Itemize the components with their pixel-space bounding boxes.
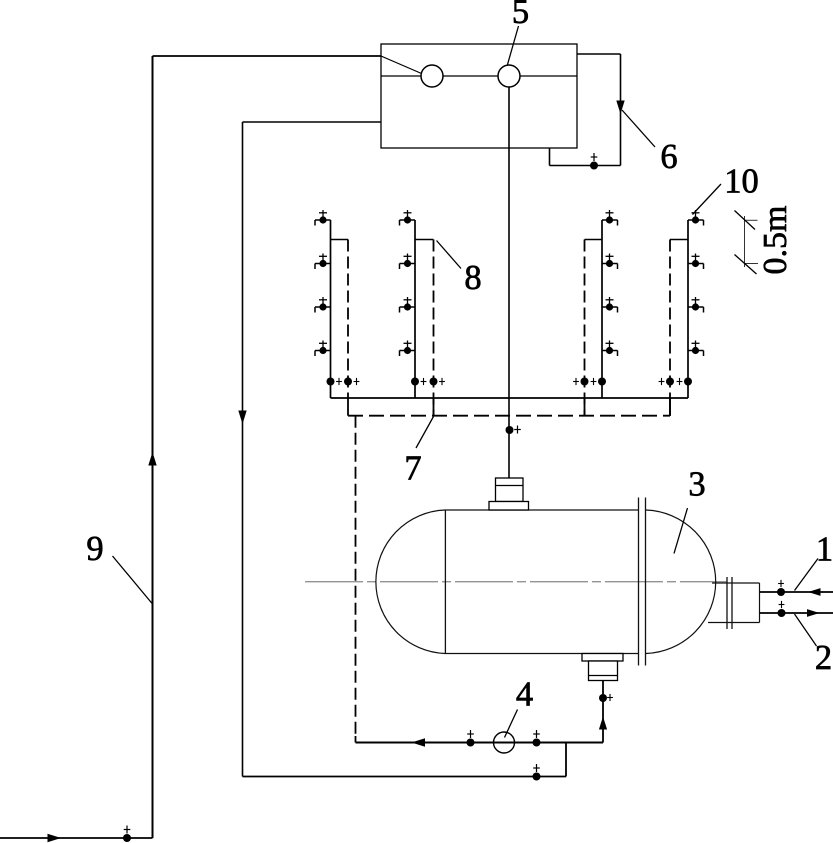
tank 3 shell bottom	[445, 653, 639, 655]
tank right head	[646, 510, 716, 654]
wire: spray branch pipe B4	[687, 220, 689, 398]
dashed drop pipe to valve line	[355, 416, 357, 738]
svg-text:4: 4	[516, 676, 533, 714]
svg-text:2: 2	[815, 639, 832, 677]
wire: return pipe into box	[243, 121, 382, 123]
flow arrow left on pipe 1	[808, 588, 821, 596]
sprinkler nozzle B4-1	[688, 210, 704, 226]
sprinkler nozzle B2-2	[400, 254, 416, 270]
valve dot left on valve run	[467, 739, 475, 747]
tank centerline	[305, 581, 727, 583]
tank 3 shell top	[445, 509, 639, 511]
sprinkler nozzle B1-1	[315, 210, 331, 226]
inlet slant line in box	[381, 56, 422, 74]
float valve right (circle)	[498, 65, 520, 87]
valve dot on drain step	[590, 162, 598, 170]
label 9 leader	[113, 556, 153, 604]
right nozzle flange pair	[726, 577, 728, 629]
sprinkler nozzle B3-2	[602, 254, 618, 270]
wire: main drop pipe from box	[508, 87, 510, 478]
flow arrow down on overflow	[616, 101, 624, 115]
valve dot on bottom return run	[533, 773, 541, 781]
flow arrow right (supply in)	[48, 834, 62, 842]
branch valve dots B2	[411, 378, 419, 386]
label 5 leader	[508, 26, 519, 65]
wire: left riser pipe (to tank 5)	[152, 56, 154, 838]
sprinkler nozzle B2-1	[400, 210, 416, 226]
branch valve dots B3	[598, 378, 606, 386]
label 10 leader	[693, 184, 722, 215]
dashed riser B4	[669, 240, 671, 416]
sprinkler nozzle B2-3	[400, 297, 416, 313]
wire: bottom return run	[243, 776, 567, 778]
sprinkler nozzle B1-2	[315, 254, 331, 270]
wire: overflow drop pipe 6	[620, 54, 622, 166]
dashed riser B2	[433, 240, 435, 416]
wire: spray branch pipe B1	[330, 220, 332, 398]
riser-manifold stub B1	[347, 398, 349, 416]
label 8 leader	[437, 241, 462, 269]
svg-text:9: 9	[86, 530, 103, 568]
wire: box drain step	[549, 148, 551, 166]
wire: overflow pipe top	[577, 53, 621, 55]
right nozzle box	[712, 582, 760, 584]
label 3 leader	[674, 508, 688, 554]
flow arrow down on return riser	[238, 411, 246, 425]
tank top nozzle flange	[496, 478, 524, 502]
svg-text:6: 6	[660, 138, 677, 176]
svg-text:10: 10	[724, 163, 759, 201]
label 7 leader	[416, 417, 434, 449]
wire: spray branch pipe B3	[601, 220, 603, 398]
label 1 leader	[795, 559, 819, 591]
valve dot right on valve run	[533, 739, 541, 747]
tank left head	[376, 510, 445, 654]
flow arrow up on tank bottom pipe	[599, 717, 607, 730]
valve dot on main drop pipe	[506, 426, 514, 434]
sprinkler nozzle B4-4	[688, 341, 704, 357]
wire: valve run line	[356, 742, 604, 744]
girth flange lines	[638, 498, 640, 666]
wire: inlet pipe 1	[760, 591, 833, 593]
wire: branch jog B1	[331, 239, 349, 241]
svg-text:0.5m: 0.5m	[757, 206, 794, 275]
solid manifold pipe	[331, 397, 689, 399]
dashed manifold right riser	[669, 398, 671, 416]
tank head seam line	[444, 510, 446, 654]
float valve left (circle)	[421, 65, 443, 87]
label 6 leader	[622, 110, 655, 147]
sprinkler nozzle B3-4	[602, 341, 618, 357]
branch valve dots B4	[684, 378, 692, 386]
label 2 leader	[795, 614, 817, 646]
wire: return riser pipe	[242, 122, 244, 777]
flow arrow up on left riser	[148, 452, 156, 466]
dimension line 0.5m ticks	[744, 216, 746, 267]
valve dot on pipe 2	[778, 609, 786, 617]
svg-text:8: 8	[464, 259, 481, 297]
sprinkler nozzle B3-3	[602, 297, 618, 313]
dashed riser B3	[584, 240, 586, 416]
flow arrow left on valve run	[412, 738, 426, 746]
riser-manifold stub B4	[669, 398, 671, 416]
wire: branch jog B4	[670, 239, 688, 241]
riser-manifold stub B3	[584, 398, 586, 416]
wire: top inlet pipe to box	[153, 55, 382, 57]
flow arrow right on pipe 2	[807, 609, 820, 617]
dashed riser B1	[347, 240, 349, 400]
dashed manifold pipe 7	[348, 415, 670, 417]
valve dot on tank bottom pipe	[599, 694, 607, 702]
sprinkler nozzle B1-3	[315, 297, 331, 313]
water tank box 5	[381, 44, 577, 148]
label 4 leader	[505, 710, 518, 738]
wire: outlet pipe 2	[760, 612, 833, 614]
sprinkler nozzle B4-3	[688, 297, 704, 313]
svg-text:3: 3	[688, 466, 705, 504]
sprinkler nozzle B2-4	[400, 341, 416, 357]
wire: branch jog B3	[585, 239, 603, 241]
wire: branch jog B2	[415, 239, 434, 241]
wire: spray branch pipe B2	[414, 220, 416, 398]
tank bottom nozzle flange	[582, 654, 623, 662]
wire: bottom-left supply pipe	[0, 837, 153, 839]
svg-text:7: 7	[404, 450, 421, 488]
valve dot on supply pipe	[123, 834, 131, 842]
valve dot on pipe 1	[777, 588, 785, 596]
sprinkler nozzle B1-4	[315, 341, 331, 357]
branch valve dots B1	[327, 378, 335, 386]
wire: tank bottom pipe	[602, 681, 604, 743]
riser-manifold stub B2	[433, 398, 435, 416]
svg-text:5: 5	[512, 0, 529, 31]
sprinkler nozzle B3-1	[602, 210, 618, 226]
water level line in box	[381, 75, 577, 77]
valve 4 circle	[494, 732, 515, 753]
sprinkler nozzle B4-2	[688, 254, 704, 270]
svg-text:1: 1	[816, 531, 833, 569]
